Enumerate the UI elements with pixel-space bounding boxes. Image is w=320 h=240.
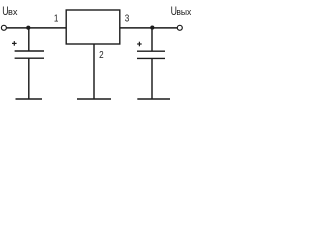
wire: pin 3 to output terminal <box>120 27 177 29</box>
label Uvyx (output voltage) <box>171 6 192 18</box>
wire: C1 branch lower <box>28 58 30 98</box>
ground (left, under C1) <box>16 98 43 100</box>
output terminal (open circle) <box>177 25 182 30</box>
wire: C2 branch upper <box>151 28 153 51</box>
capacitor C1 (polarized) <box>15 51 44 58</box>
node: junction input/C1 <box>26 26 30 30</box>
svg-text:3: 3 <box>125 13 130 24</box>
svg-text:вх: вх <box>8 7 18 17</box>
ground (middle, under pin 2) <box>77 98 111 100</box>
wire: C2 branch lower <box>151 58 153 98</box>
plus sign of C1 <box>12 41 17 46</box>
svg-text:вых: вых <box>176 7 191 18</box>
wire: C1 branch upper <box>28 28 30 51</box>
input terminal (open circle) <box>1 25 6 30</box>
plus sign of C2 <box>137 42 142 47</box>
svg-text:1: 1 <box>54 13 59 24</box>
svg-text:2: 2 <box>99 49 104 60</box>
op-amp U1 (regulator box) <box>66 10 120 44</box>
wire: pin 2 down <box>93 44 95 99</box>
capacitor C2 (polarized) <box>137 51 165 58</box>
wire: input terminal to pin 1 <box>7 27 67 29</box>
label Uvx (input voltage) <box>2 6 18 18</box>
ground (right, under C2) <box>137 98 170 100</box>
node: junction output/C2 <box>150 26 154 30</box>
